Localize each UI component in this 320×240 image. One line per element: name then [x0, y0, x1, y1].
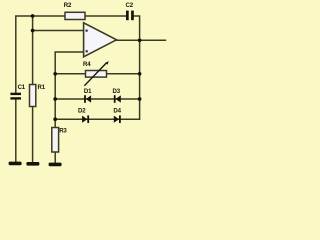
wire diode row 2 left — [55, 118, 83, 120]
wire R4 row left — [55, 73, 85, 75]
node R4 right junction — [138, 72, 142, 76]
node diode row1 right junction — [138, 97, 142, 101]
capacitor C1 — [10, 84, 25, 100]
wire noninverting input — [33, 30, 84, 32]
svg-text:R2: R2 — [64, 2, 72, 9]
wire right vertical bus — [87, 40, 140, 119]
ground R3 — [49, 163, 62, 167]
node feedback/R1 junction — [31, 14, 35, 18]
node noninverting junction — [31, 29, 35, 33]
capacitor C2 — [126, 2, 134, 20]
wire R1 branch upper — [32, 16, 34, 85]
svg-text:R1: R1 — [38, 84, 46, 91]
svg-text:D1: D1 — [84, 88, 92, 95]
wire inverting input — [55, 52, 83, 128]
resistor R1 — [30, 84, 46, 106]
op-amp U1 — [84, 23, 117, 57]
wire R3 to ground — [54, 152, 56, 163]
node R4 left junction — [53, 72, 57, 76]
resistor R3 — [52, 128, 68, 153]
wire R2 to C2 — [85, 15, 126, 17]
wire diode row 1 — [55, 98, 139, 100]
node diode row2 left junction — [53, 117, 57, 121]
wire R4 row right — [107, 73, 140, 75]
diode D2 — [78, 108, 89, 123]
node diode row1 left junction — [53, 97, 57, 101]
node output junction — [138, 38, 142, 42]
svg-text:D4: D4 — [113, 108, 121, 115]
wire R1 to ground — [32, 107, 34, 163]
ground C1 — [9, 162, 22, 166]
wire top feedback rail — [16, 16, 65, 93]
svg-text:D2: D2 — [78, 108, 86, 115]
diode D3 — [113, 88, 121, 103]
svg-text:C1: C1 — [18, 84, 26, 91]
svg-text:R4: R4 — [83, 61, 91, 68]
wire C2 to output node — [134, 16, 140, 40]
diode D1 — [84, 88, 92, 103]
resistor R2 — [64, 2, 85, 20]
svg-text:C2: C2 — [126, 2, 134, 9]
svg-text:R3: R3 — [59, 128, 67, 135]
diode D4 — [113, 108, 121, 123]
ground R1 — [26, 162, 39, 166]
svg-text:D3: D3 — [113, 88, 121, 95]
potentiometer R4 — [83, 61, 109, 86]
wire C1 to ground — [15, 100, 17, 163]
wire op-amp output — [117, 39, 166, 41]
